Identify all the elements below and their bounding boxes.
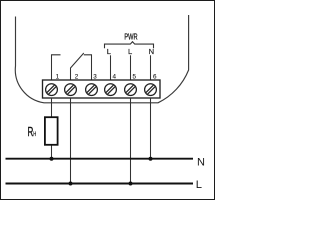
svg-text:H: H: [33, 131, 36, 138]
svg-text:L: L: [196, 179, 202, 191]
svg-text:L: L: [128, 47, 132, 56]
svg-text:L: L: [107, 47, 111, 56]
svg-text:N: N: [197, 156, 205, 168]
svg-text:PWR: PWR: [124, 32, 137, 42]
svg-text:N: N: [149, 47, 154, 56]
